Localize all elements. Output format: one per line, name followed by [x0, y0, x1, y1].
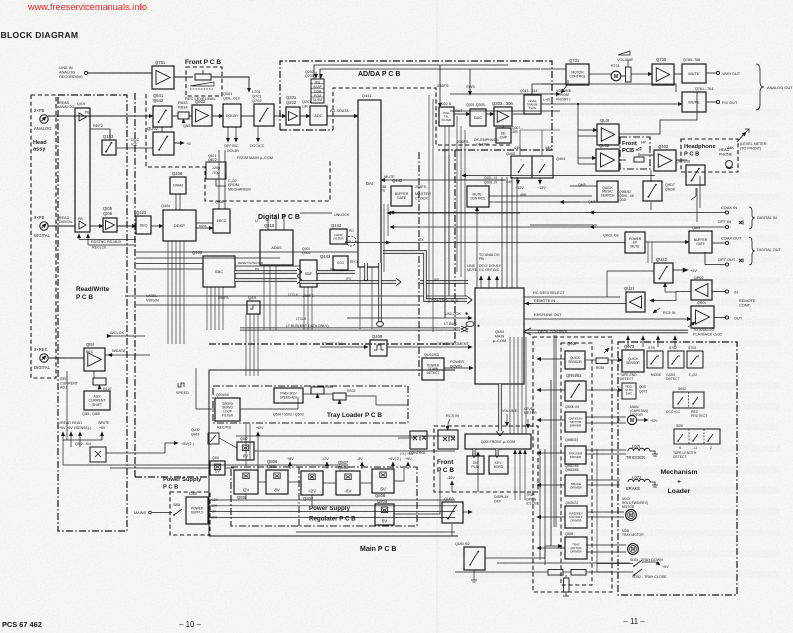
wire sbc sbf reset [235, 265, 300, 267]
bus DAI vertical stubs [364, 263, 367, 279]
wire motorcontrol to motor [589, 73, 611, 75]
capstan motor driver QM01..04 [565, 412, 586, 432]
ERCO [213, 209, 230, 233]
motor control Q731 [566, 64, 589, 85]
tray motor M051 [628, 544, 639, 555]
wire q812 [219, 438, 237, 448]
QU01 MAIN uCOM [475, 288, 524, 384]
head amplifier Q101 tall box [75, 108, 90, 232]
wire L+R to fix mute [541, 103, 682, 105]
Front PCB bottom outline [434, 426, 538, 492]
wire +5v12 row [190, 452, 455, 454]
wire qu22 +5v [673, 269, 683, 271]
wire WCLCK [108, 335, 145, 337]
power supply L801 [186, 497, 208, 524]
SBC Q408 [203, 256, 235, 287]
wire arrows into IFS stack [315, 72, 317, 78]
ADAS Q410 [260, 230, 293, 265]
wire front ucom bottom drops [514, 450, 516, 500]
wire qh05 grounds [696, 188, 698, 222]
wire sd51 vertical [596, 449, 598, 572]
regulator Q808 [372, 469, 394, 493]
wire front ucom up arrows [509, 337, 511, 434]
front-end dashed boundary [146, 94, 330, 201]
latch Q411 [247, 301, 260, 314]
wire tray loader [196, 408, 215, 410]
wire reg chain [258, 481, 266, 483]
resistor R731 [626, 67, 632, 82]
wire Q101 to Q641 [90, 115, 153, 117]
speed servo loop filter [215, 398, 240, 421]
de-emphasis Q307..309 [496, 128, 511, 143]
Mechanism Loader outline [618, 342, 737, 595]
wire jack3 to Q151 [48, 357, 84, 359]
wire qu61 down gnd [471, 570, 477, 582]
Digital PCB outline left edge [134, 93, 136, 477]
op-amp Q402 [654, 150, 676, 171]
digital in brace [749, 207, 755, 229]
trigger driver QM81/84 [565, 446, 586, 464]
pot R508 [311, 387, 324, 394]
op-amp QL02 [596, 149, 619, 171]
wire bus stubs to drivers [537, 358, 565, 360]
Headphone PCB outline [681, 139, 738, 172]
Front PCB mid pot [634, 157, 644, 162]
wire q151 down rail [66, 371, 68, 440]
Digital PCB outline right edge [454, 150, 456, 344]
Tray Loader PCB outline [213, 386, 408, 423]
wire deq ddsp [151, 225, 163, 227]
wire Q720 to mute [674, 73, 682, 75]
DAI Q441 [358, 100, 381, 267]
out node [714, 317, 725, 319]
DDSP [163, 210, 196, 241]
quick sensor QO31 [565, 351, 585, 369]
fwd rev motor driver QM21/22 [565, 506, 587, 528]
wire to power up mute [475, 242, 625, 244]
op-amp QU21 [626, 292, 645, 312]
Digital PCB outline bottom edge [209, 343, 455, 345]
PLL circle [346, 236, 356, 246]
wire WDATA [105, 354, 150, 356]
Q001 front ucom [465, 434, 531, 449]
wire to analog pb arrows [480, 276, 482, 288]
Main PCB outline [209, 370, 458, 536]
switch QU02 [153, 132, 174, 155]
wire tray open vertical [539, 449, 541, 560]
wire Q102 to +5V(2) [106, 443, 178, 453]
mute control [467, 186, 489, 207]
switch Q641 Q642 [153, 106, 172, 127]
regulator Q806 [266, 470, 288, 494]
wire de-emp [502, 126, 504, 128]
op-amp Q151 REC [84, 348, 105, 371]
wire mute return rail [392, 212, 520, 214]
loop filter Q442b [330, 229, 347, 244]
mute Q761..764 [682, 92, 706, 112]
Head assy outline [31, 95, 56, 378]
wire mains [152, 512, 172, 514]
wire qu63 [451, 524, 453, 536]
switch QU63 [442, 502, 463, 523]
keyboard [489, 456, 508, 474]
9xREC digital jack [40, 354, 48, 362]
Digital PCB inner dash-dot [418, 152, 420, 376]
buffer gate Q442 [391, 186, 412, 206]
wire ql inputs [577, 104, 579, 164]
control bus [383, 252, 467, 300]
speed icon [178, 383, 184, 387]
regulator Q804 [375, 504, 394, 525]
resistor bottom vertical [564, 578, 570, 592]
fix out node [706, 101, 716, 103]
wire rd-mux [79, 239, 136, 241]
wire vari row feed [543, 84, 676, 92]
wire Q641 chain [172, 115, 178, 117]
half box QU32 [208, 433, 219, 444]
mute Q765..768 [682, 64, 706, 83]
wire qu21 qu22 interconnect [650, 292, 691, 301]
wire reg inputs [245, 494, 247, 500]
rails dai bottom [359, 267, 361, 329]
SBF Q401 Q402 [300, 260, 317, 287]
Power Supply Regulater PCB outline [231, 467, 417, 526]
rails right column down [647, 242, 649, 263]
vertical rails addagroup [428, 95, 430, 303]
regulator top arrows [289, 462, 291, 469]
wire jack2 chain [48, 225, 75, 227]
regulator Q812 [237, 442, 254, 460]
motor M731 [611, 71, 621, 81]
wire capstan +12V [637, 419, 648, 421]
roll motor M072 [626, 510, 637, 521]
wire drivers to loads [586, 416, 626, 418]
wire c102 [216, 179, 226, 186]
wire sd52 [597, 571, 633, 573]
wire front pcb display off drop [506, 449, 508, 456]
pulse shaper Q409 [370, 340, 387, 356]
wire dac chain [454, 113, 470, 115]
quick sensor QO73 [622, 350, 644, 372]
wire ifs buses [317, 270, 355, 273]
wire sbf down [303, 287, 305, 330]
wire mute control verticals [476, 207, 478, 288]
headphone jack icon [726, 161, 733, 168]
deck control feed bus [553, 335, 555, 527]
fwd/rev speed adj [274, 388, 303, 403]
regulator Q807 [336, 471, 360, 495]
control box [410, 431, 427, 449]
power down detect QU52 [422, 358, 444, 380]
wire supply arrows [62, 432, 64, 440]
wire Q751 to front pcb [174, 76, 193, 78]
wire dolby control drops [227, 127, 229, 142]
DRAM Q406 [170, 177, 186, 194]
SD51 tray down switch [634, 560, 642, 566]
brake driver QM82/85 [565, 475, 587, 496]
wire control left [398, 437, 414, 439]
display [467, 456, 484, 474]
pot R502 [333, 393, 346, 400]
start seg wire [320, 346, 368, 348]
level meter arrow [737, 132, 746, 142]
Read/Write PCB outline [58, 95, 127, 531]
wire lt bus oval [466, 321, 474, 326]
deck control bus [524, 330, 688, 333]
wire q811 row [110, 467, 210, 469]
power up mute QA02 [625, 232, 645, 253]
wire q403 down arrows [517, 178, 519, 184]
digital out brace [749, 237, 755, 265]
wire qh07 [650, 170, 652, 210]
REC LEVEL/BAL pot [195, 74, 211, 80]
wire top rails right [541, 68, 566, 70]
wire front ucom down [473, 449, 476, 455]
wire power down [444, 367, 473, 369]
wire qr51 to reel [587, 389, 622, 391]
switch QR51 QR52 [565, 381, 586, 401]
switch QH07 QH08 [643, 181, 662, 201]
wire IFS feedback top [314, 65, 508, 79]
wire read write long rails [63, 440, 348, 465]
opt out node [705, 252, 725, 265]
deck drivers dashed outline [533, 337, 612, 592]
capstan motor M [627, 415, 636, 424]
op-amp QR01 [691, 306, 714, 328]
ghost show-through [450, 88, 780, 95]
DEQ Q423 [136, 216, 151, 234]
wire coax in [390, 212, 725, 214]
op-amp QR02 [691, 280, 712, 300]
op-amp Q105 Q106 [103, 218, 117, 232]
optical icon in [739, 221, 743, 225]
volume from front arrow [561, 84, 568, 93]
regulator Q811 [210, 461, 225, 475]
tray motor driver QM51 [565, 537, 587, 559]
9xPB digital jack [40, 222, 48, 230]
AD/DA PCB outline [280, 61, 552, 150]
switch QU22 [654, 263, 673, 283]
quick music search [597, 181, 618, 202]
wire under regulator [296, 531, 455, 533]
DAC Q301 Q305 [470, 109, 486, 126]
coil L072 brake [628, 479, 650, 482]
coil L071 trigger [628, 448, 650, 451]
wire r167 [94, 371, 99, 390]
switch Q153 [102, 140, 116, 155]
ADC Q201 [310, 106, 327, 125]
IFS stack Q202 Q203 [311, 79, 324, 103]
wire front pcb to L701 [211, 77, 249, 92]
DAI section dashed boundary [333, 88, 510, 145]
wire sbc down [206, 287, 208, 330]
unlock wire [347, 317, 472, 319]
SD52 tray close switch [634, 569, 642, 575]
regulator Q102 box [90, 447, 106, 462]
optical icon out [739, 259, 743, 263]
buffer gate QA01 [689, 231, 712, 253]
coax out node [712, 242, 725, 244]
dolby Q601 [223, 104, 241, 127]
wire qu32 row [236, 435, 455, 437]
regulator Q802 [301, 471, 323, 495]
wire to Q720 [631, 73, 652, 75]
wire line-in to Q751 [88, 72, 152, 74]
rails center drop to main pcb [245, 314, 247, 376]
wire horizontals mid right [462, 175, 655, 177]
driver column dashed outline [561, 343, 592, 585]
Power Supply PCB outline [170, 492, 210, 535]
level transition Q311..314 [524, 95, 541, 114]
wire mute into dai [381, 179, 505, 181]
wire Q641 to QU02 [161, 127, 163, 132]
IR receiver box [438, 430, 458, 449]
reel stro disc box [622, 383, 636, 399]
switch QH05 QH06 [686, 165, 705, 185]
wire adas down [263, 265, 265, 330]
Digital PCB outline bottom stub [135, 476, 209, 478]
wire qu61 right [485, 546, 562, 558]
wire SWS drop [469, 69, 471, 95]
pot R633 R634 [178, 112, 189, 119]
vari out node [706, 72, 716, 74]
wire ddsp erco DATA [196, 223, 213, 228]
analog out brace [756, 64, 764, 110]
op-amp Q303..306 [494, 107, 512, 126]
wire ql01 out [619, 92, 697, 134]
wire s70x up arrows [627, 336, 629, 347]
pot R167 [93, 378, 106, 385]
op-amp Q602 [192, 105, 212, 126]
op-amp Q720 [652, 64, 674, 85]
wire sbc sbf ps [235, 270, 297, 273]
wire qu01 bottom bus [498, 384, 501, 431]
regulator Q801 [234, 470, 258, 494]
resistor bottom 2 [571, 570, 586, 576]
wire r036 [585, 359, 596, 361]
switch QU61 QU62 [464, 547, 485, 570]
wire Q153 to QU02 [117, 147, 153, 149]
vertical rails to qu01 top [501, 177, 503, 288]
long rails left to qu01 [136, 251, 358, 253]
wire sd51 [597, 563, 633, 565]
wire mute to buffer [645, 241, 689, 243]
wire head to Q641 row [48, 115, 152, 117]
Front PCB mid outline [620, 137, 650, 169]
wire Q101 down ref2 [90, 129, 110, 140]
switch Q701 Q702 [254, 104, 274, 126]
wire ql02 to front pot [619, 159, 626, 161]
aux current shift Q181-Q185 [84, 391, 110, 410]
volume slider icon [618, 51, 630, 55]
wire AD-SDATA [327, 115, 358, 117]
wire jack1 to Q101 [48, 115, 75, 117]
wire supply outputs [208, 499, 455, 501]
rails adda to qu01 [444, 126, 446, 318]
in node [712, 291, 725, 293]
wire opt in [390, 226, 725, 228]
resistor bottom 1 [548, 570, 563, 576]
wire level transition down [531, 114, 533, 156]
wire bottom resistors [455, 571, 548, 573]
Front PCB top outline [186, 67, 222, 96]
digital filter Q302 [439, 107, 454, 126]
wire q404 top rails [519, 130, 521, 156]
wire soh up [660, 420, 694, 429]
wire 256FS drop [439, 65, 441, 107]
wire erco up [219, 150, 225, 209]
wire fix row [565, 94, 567, 104]
wire QU02 +5 [174, 142, 184, 144]
2xPB analog jack [40, 115, 48, 123]
VCO Q443 [333, 256, 348, 270]
wire q402 to headphone [676, 159, 687, 161]
wire start segment [387, 346, 472, 348]
op-amp Q221 Q222 [286, 107, 300, 125]
wire ddsp down [167, 241, 169, 344]
page fold line [436, 0, 438, 633]
line-in node [84, 71, 87, 74]
op-amp Q751 [152, 66, 174, 89]
op-amp QL01 [597, 124, 619, 145]
wire adas up LT [268, 214, 284, 230]
LT bus [240, 327, 460, 329]
resistor R036 [596, 358, 608, 364]
wire dram to ddsp [176, 194, 180, 210]
